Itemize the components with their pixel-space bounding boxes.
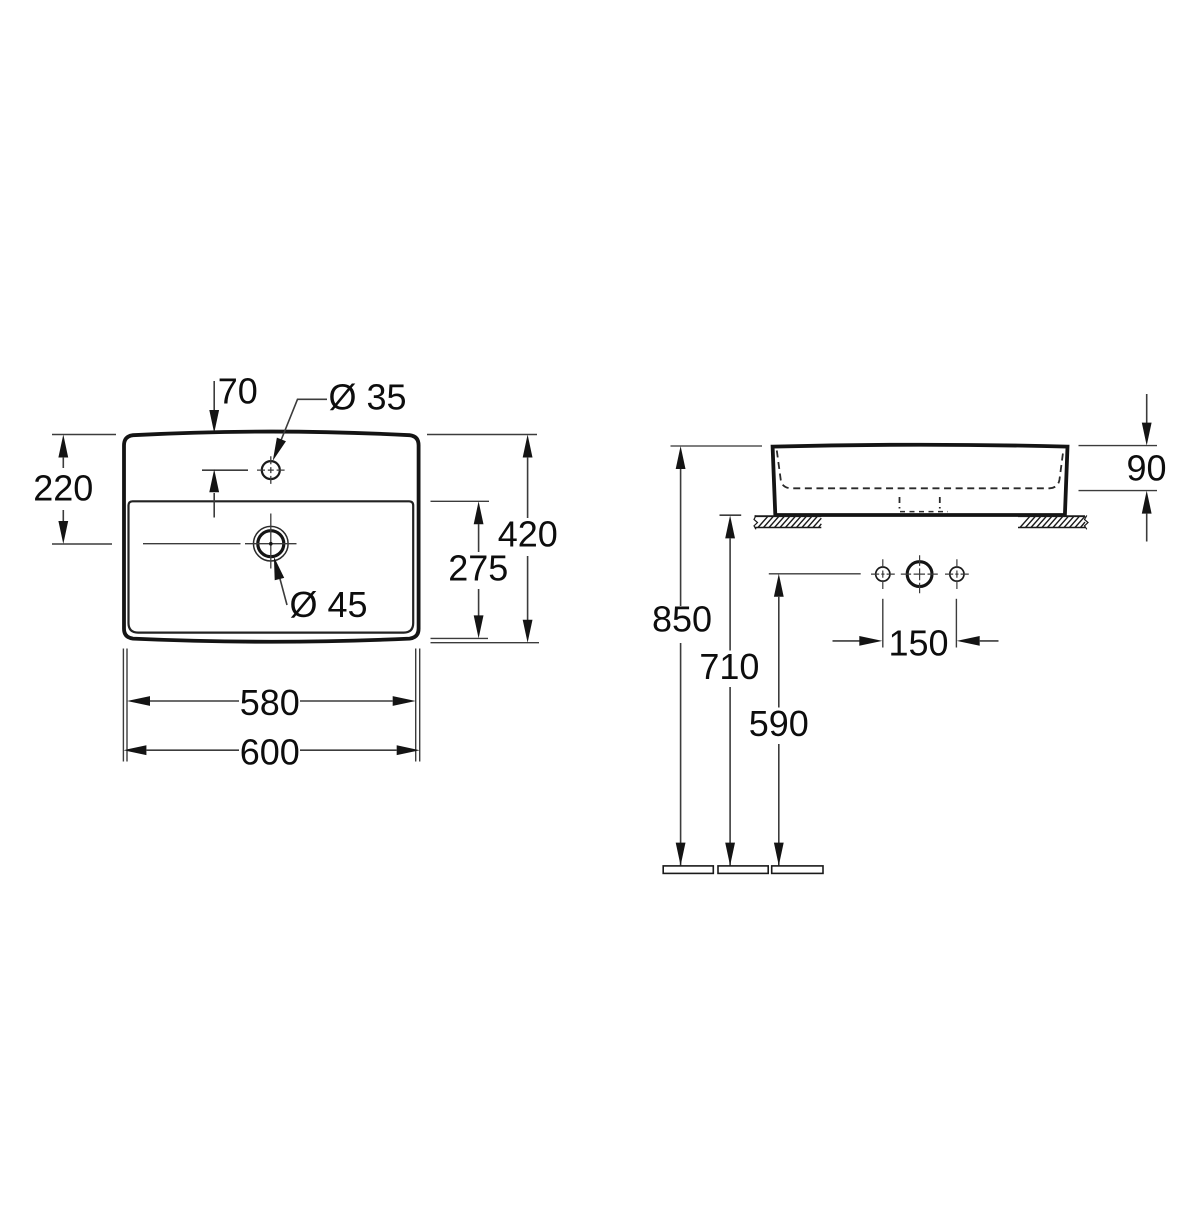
- svg-text:70: 70: [218, 371, 258, 412]
- svg-text:600: 600: [240, 732, 300, 773]
- svg-text:590: 590: [749, 703, 809, 744]
- dimension 90: [1079, 394, 1167, 542]
- dimension 420: [427, 435, 558, 643]
- dimension 590: [749, 574, 861, 866]
- svg-text:275: 275: [448, 548, 508, 589]
- svg-text:580: 580: [240, 682, 300, 723]
- svg-text:Ø 45: Ø 45: [290, 584, 368, 625]
- dimension 710: [699, 515, 759, 865]
- svg-text:710: 710: [699, 646, 759, 687]
- dimension 150: [833, 599, 999, 664]
- front view: basin outline: [773, 445, 1068, 515]
- dimension 600: [123, 649, 419, 773]
- front view: inner basin dashed profile: [777, 451, 1064, 489]
- front view: drain hidden lines: [900, 497, 949, 512]
- svg-text:150: 150: [888, 623, 948, 664]
- svg-text:220: 220: [33, 468, 93, 509]
- dimension D45 label: [269, 556, 367, 625]
- plan view: basin inner rim: [129, 501, 414, 632]
- dimension 70: [202, 371, 258, 518]
- countertop left pad (hatched): [754, 515, 821, 529]
- drain hole (plan): [143, 514, 297, 569]
- tap hole left (front): [871, 559, 895, 589]
- svg-text:Ø 35: Ø 35: [329, 377, 407, 418]
- plan view: basin outer outline: [124, 432, 419, 642]
- tap hole (plan): [257, 456, 285, 484]
- dimension 275: [431, 501, 509, 638]
- svg-text:90: 90: [1126, 448, 1166, 489]
- tap hole right (front): [945, 559, 969, 589]
- tap hole center (front): [901, 555, 938, 593]
- rim top extension line: [671, 445, 763, 447]
- dimension D35 label: [268, 377, 406, 463]
- dimension 220: [33, 435, 116, 545]
- dimension 850: [652, 446, 712, 866]
- countertop right pad (hatched): [1018, 515, 1088, 529]
- dimension 580: [127, 649, 416, 762]
- svg-text:850: 850: [652, 599, 712, 640]
- floor bars: [663, 866, 823, 874]
